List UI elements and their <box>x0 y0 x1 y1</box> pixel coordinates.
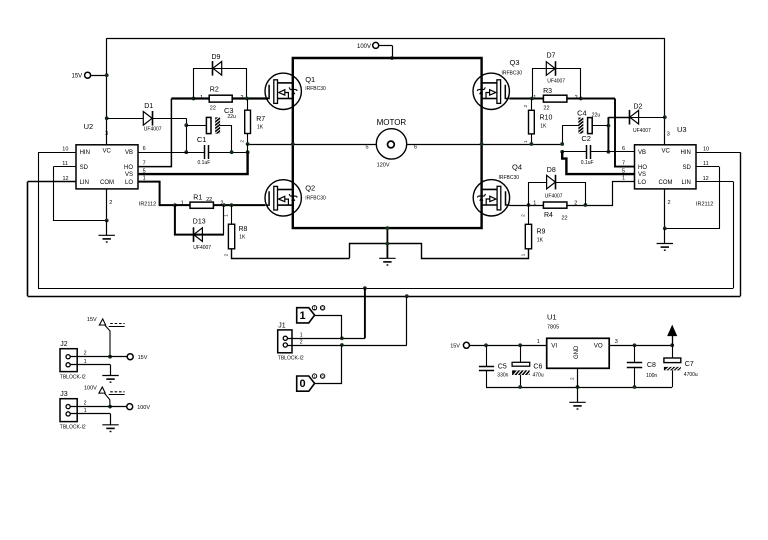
wire H-bridge loop (drain/source bus) <box>293 58 482 228</box>
wire line2 to J1 pin2 <box>406 296 408 345</box>
wire C4 right <box>592 125 608 127</box>
connector J3 TBLOCK-I2 body <box>60 399 77 422</box>
wire arrow stem <box>672 331 674 345</box>
node U3 COM/SD <box>663 227 667 231</box>
svg-text:2: 2 <box>570 377 576 380</box>
node C8 bottom <box>633 385 637 389</box>
svg-text:C7: C7 <box>685 361 694 368</box>
connector J1 TBLOCK-I2 body <box>278 330 292 353</box>
svg-text:C5: C5 <box>498 363 507 370</box>
svg-text:R10: R10 <box>540 115 553 122</box>
svg-text:0.1uF: 0.1uF <box>198 160 211 166</box>
svg-text:UF4007: UF4007 <box>633 128 651 134</box>
svg-text:TBLOCK-I2: TBLOCK-I2 <box>60 424 86 430</box>
svg-text:7805: 7805 <box>547 324 559 330</box>
node R2 pin2/R7 <box>245 97 249 101</box>
svg-text:R7: R7 <box>256 116 265 123</box>
node VS chain mid <box>246 150 250 154</box>
wire VDD top rail <box>107 38 665 40</box>
wire J3 pin1 <box>70 413 110 415</box>
svg-text:IRFBC30: IRFBC30 <box>502 71 523 77</box>
node line1/J1 pin1 <box>363 286 367 290</box>
svg-text:470u: 470u <box>533 372 544 378</box>
flag 100V dashes <box>110 391 124 393</box>
svg-text:R3: R3 <box>543 88 552 95</box>
diode D8 UF4007 <box>547 175 556 189</box>
wire 100V terminal <box>379 45 393 47</box>
node R2 pin1 <box>192 97 196 101</box>
wire J2 pin2 <box>70 356 110 358</box>
probe1 toggle circle a <box>312 306 316 310</box>
svg-text:HO: HO <box>638 165 647 171</box>
svg-text:100V: 100V <box>357 44 371 50</box>
wire U2 VB stub <box>138 152 186 154</box>
node R7/switch line <box>246 142 250 146</box>
node probe1 tap <box>340 336 344 340</box>
svg-text:1: 1 <box>520 253 526 256</box>
wire C3 right to VS <box>220 126 231 152</box>
wire VS right vertical <box>562 126 564 144</box>
node GND rail <box>576 385 580 389</box>
wire U3 VS rail <box>562 152 634 174</box>
node bridge bottom <box>386 226 390 230</box>
regulator U1 7805 body <box>547 338 610 368</box>
wire U2 COM stub <box>106 189 108 221</box>
svg-text:C8: C8 <box>647 362 656 369</box>
wire logic line2 LIN-HIN <box>28 296 741 298</box>
svg-text:LO: LO <box>638 180 646 186</box>
capacitor C2 left plate <box>586 145 588 159</box>
wire R4 pin1 to Q4 gate <box>509 205 543 207</box>
svg-text:D8: D8 <box>547 167 556 174</box>
wire U2 HIN stub <box>38 152 76 154</box>
wire U1 bottom rail <box>486 387 672 389</box>
node C5 top <box>484 343 488 347</box>
wire U2 LO to R1 <box>138 182 175 206</box>
wire C2 to U3 VB <box>591 151 635 153</box>
wire C7 top stem <box>672 345 674 358</box>
resistor R10 1K <box>529 110 535 134</box>
flag 100V underline <box>109 394 125 396</box>
svg-text:11: 11 <box>62 161 68 167</box>
wire to 15V terminal <box>110 356 127 358</box>
wire J2 pin1 to gnd <box>110 365 112 376</box>
diode D2 UF4007 <box>630 110 639 124</box>
wire J1 pin1 <box>287 338 365 340</box>
svg-text:D2: D2 <box>634 104 643 111</box>
wire U2 SD to COM <box>54 167 107 221</box>
node R3 pin2 <box>579 97 583 101</box>
wire R7 top <box>247 99 249 111</box>
svg-text:R4: R4 <box>544 212 553 219</box>
wire U2 VC vertical <box>106 38 108 145</box>
wire VB to C1 <box>186 152 204 154</box>
wire C6 bottom stem <box>520 375 522 387</box>
svg-text:120V: 120V <box>377 162 390 168</box>
power flag 100V <box>99 387 105 393</box>
svg-text:1K: 1K <box>239 234 246 240</box>
node C2 left <box>560 150 564 154</box>
probe0 toggle circle b <box>320 374 324 378</box>
wire C8 top stem <box>634 345 636 362</box>
wire J2 pin1 <box>70 364 110 366</box>
node R10/switch line <box>530 142 534 146</box>
svg-text:U2: U2 <box>84 122 94 131</box>
svg-text:SD: SD <box>682 165 691 171</box>
ground J3 <box>102 425 118 432</box>
resistor R3 22 <box>543 95 567 102</box>
wire U3 HO to gate rail <box>615 99 635 167</box>
wire J1 pin2 <box>287 345 406 347</box>
svg-text:1: 1 <box>523 140 529 143</box>
svg-text:LIN: LIN <box>80 180 89 186</box>
wire D2 cathode <box>608 117 629 119</box>
capacitor C8 bottom plate <box>627 367 642 369</box>
node C6 top <box>518 343 522 347</box>
transistor Q2 IRFBC30 low-side left <box>265 180 301 216</box>
svg-text:5: 5 <box>365 144 368 150</box>
capacitor C8 top plate <box>627 362 642 364</box>
svg-text:IRFBC30: IRFBC30 <box>499 175 520 181</box>
svg-text:C4: C4 <box>577 108 587 117</box>
wire motor to right switch node <box>407 144 562 146</box>
wire U3 SD stub <box>696 166 719 168</box>
svg-text:VC: VC <box>103 149 112 155</box>
svg-text:2: 2 <box>109 200 112 206</box>
svg-text:2: 2 <box>520 214 526 217</box>
svg-text:Q4: Q4 <box>512 162 522 171</box>
svg-text:22: 22 <box>562 215 568 221</box>
svg-text:U1: U1 <box>547 313 557 322</box>
svg-text:U3: U3 <box>677 125 687 134</box>
node R1 pin2/D13 <box>222 203 226 207</box>
svg-text:GND: GND <box>574 345 580 359</box>
svg-text:VS: VS <box>125 172 133 178</box>
svg-text:R8: R8 <box>239 226 248 233</box>
node C7 top <box>670 343 674 347</box>
resistor R2 22 <box>209 95 232 102</box>
svg-text:COM: COM <box>100 180 114 186</box>
svg-text:VB: VB <box>125 150 133 156</box>
svg-text:R9: R9 <box>537 229 546 236</box>
diode D1 UF4007 <box>143 112 152 126</box>
resistor R7 1K <box>245 110 251 133</box>
node VB right <box>607 150 611 154</box>
node D1 anode tap <box>105 116 109 120</box>
wire 15V to VI <box>469 345 547 347</box>
wire probe1 to J1 pin1 <box>315 316 342 339</box>
transistor Q4 IRFBC30 low-side right <box>473 180 509 216</box>
pin J3-2 <box>66 405 70 409</box>
wire C6 top stem <box>520 345 522 362</box>
wire 100V drop <box>392 45 394 58</box>
wire bottom ground jog <box>350 244 529 259</box>
svg-text:UF4007: UF4007 <box>144 127 162 133</box>
wire left switch node to motor <box>248 144 377 146</box>
node D8 cathode tap <box>584 203 588 207</box>
resistor R1 22 <box>190 202 213 208</box>
svg-text:IRFBC30: IRFBC30 <box>305 196 326 202</box>
node C8 top <box>633 343 637 347</box>
pin J3-1 <box>66 412 70 416</box>
svg-text:UF4007: UF4007 <box>545 194 563 200</box>
capacitor C1 left plate <box>204 145 206 159</box>
wire R3 pin1 to Q3 gate <box>509 98 543 100</box>
wire GND drop <box>577 387 579 402</box>
wire U2 COM to ground <box>106 221 108 236</box>
svg-text:1: 1 <box>223 214 229 217</box>
node 15V/VC junction <box>105 73 109 77</box>
svg-text:4700u: 4700u <box>684 372 698 378</box>
wire R2 pin2 to Q1 gate <box>232 97 268 99</box>
logic state probe 0 <box>297 376 315 391</box>
svg-text:LO: LO <box>125 180 133 186</box>
svg-text:15V: 15V <box>72 74 83 80</box>
node D2 anode tap <box>663 115 667 119</box>
power arrow VDD out <box>668 326 677 336</box>
svg-text:D9: D9 <box>212 54 221 61</box>
svg-text:D7: D7 <box>547 53 556 60</box>
svg-text:VI: VI <box>551 343 557 350</box>
connector J2 TBLOCK-I2 body <box>60 349 77 372</box>
wire C4 left <box>562 125 578 127</box>
svg-text:7: 7 <box>143 161 146 167</box>
wire HO gate rail to R3 <box>581 98 615 100</box>
wire C8 bottom stem <box>634 367 636 387</box>
capacitor C4 minus plate <box>578 117 583 137</box>
wire U2 LIN stub <box>28 181 76 183</box>
capacitor C2 right plate <box>590 145 592 159</box>
svg-text:2: 2 <box>223 253 229 256</box>
svg-text:100V: 100V <box>84 385 97 391</box>
svg-text:R2: R2 <box>210 86 219 93</box>
node probe0 tap <box>340 343 344 347</box>
motor inner hub <box>388 141 395 148</box>
wire C5 bottom stem <box>486 370 488 387</box>
svg-text:22: 22 <box>206 197 212 203</box>
wire R1 pin2 to Q2 gate <box>213 204 265 206</box>
wire 15V to VC <box>90 75 106 77</box>
svg-text:15V: 15V <box>87 317 97 323</box>
svg-text:MOTOR: MOTOR <box>377 118 407 127</box>
svg-text:UF4007: UF4007 <box>547 78 565 84</box>
wire U3 COM stub <box>664 189 666 229</box>
svg-text:330n: 330n <box>497 372 508 378</box>
capacitor C7 plus plate <box>664 358 681 363</box>
wire C7 bottom stem <box>672 370 674 387</box>
op-amp driver U2 IR2112 body <box>76 145 138 189</box>
svg-text:3: 3 <box>667 132 670 138</box>
svg-text:100n: 100n <box>646 373 657 379</box>
wire logic line1 HIN-LIN <box>38 288 733 290</box>
svg-text:0: 0 <box>300 378 306 390</box>
wire R10 top <box>531 99 533 111</box>
svg-text:R1: R1 <box>193 195 202 202</box>
diode D13 UF4007 <box>194 228 203 242</box>
wire C1 to VS chain <box>209 152 248 154</box>
wire C2 left wire <box>562 151 586 153</box>
wire VB right vertical <box>607 117 609 152</box>
svg-text:HIN: HIN <box>680 150 690 156</box>
svg-text:2: 2 <box>240 140 246 143</box>
svg-text:5: 5 <box>622 168 625 174</box>
flag 15V underline <box>109 326 125 328</box>
svg-text:IRFBC30: IRFBC30 <box>305 86 326 92</box>
wire flag to J3 node <box>105 393 111 406</box>
ground J2 <box>102 376 118 383</box>
wire bridge bottom to ground <box>386 228 388 258</box>
op-amp driver U3 IR2112 body <box>635 145 697 189</box>
diode D7 UF4007 <box>546 62 555 76</box>
node R3 pin1/R10 <box>530 97 534 101</box>
wire R8 bottom rail <box>232 249 350 259</box>
svg-text:2: 2 <box>668 200 671 206</box>
svg-text:COM: COM <box>659 180 673 186</box>
svg-text:10: 10 <box>62 146 68 152</box>
diode D7 loop wire <box>533 69 581 99</box>
motor M1 body <box>376 129 406 159</box>
probe1 toggle circle b <box>320 306 324 310</box>
wire probe0 to J1 pin2 <box>315 345 342 384</box>
wire J3 pin2 <box>70 406 110 408</box>
wire R3 pin2 seg <box>567 98 581 100</box>
svg-text:22u: 22u <box>228 114 237 120</box>
svg-text:1K: 1K <box>537 237 544 243</box>
diode D9 UF4007 <box>213 62 222 76</box>
wire J3 pin1 to gnd <box>110 414 112 425</box>
svg-text:HO: HO <box>124 165 133 171</box>
wire D1 drop to VB <box>186 118 188 152</box>
capacitor C3 plus plate <box>206 117 211 133</box>
ground U1 <box>569 402 585 409</box>
terminal 15V J2 <box>127 354 133 360</box>
capacitor C5 top plate <box>479 366 494 368</box>
node right bridge tap <box>480 142 484 146</box>
svg-text:IR2112: IR2112 <box>696 201 713 207</box>
svg-text:0.1uF: 0.1uF <box>581 160 594 166</box>
wire HO gate rail to R2 <box>171 97 193 99</box>
svg-text:12: 12 <box>703 176 709 182</box>
wire line1 to J1 pin1 <box>364 288 366 338</box>
node C6 bottom <box>518 385 522 389</box>
capacitor C1 right plate <box>208 145 210 159</box>
svg-text:15V: 15V <box>138 355 148 361</box>
svg-text:J2: J2 <box>60 341 68 348</box>
pin J1-1 <box>283 336 287 340</box>
svg-text:100V: 100V <box>137 405 150 411</box>
node VB left <box>184 150 188 154</box>
node C3 plus tap <box>184 123 188 127</box>
terminal 100V J3 <box>127 404 133 410</box>
wire U1 GND stub <box>577 368 579 387</box>
pin J2-2 <box>66 355 70 359</box>
wire U3 VC vertical <box>664 38 666 145</box>
wire D2 to VC <box>630 117 665 119</box>
node VS right <box>560 142 564 146</box>
svg-text:3: 3 <box>105 131 108 137</box>
svg-text:J1: J1 <box>278 323 286 330</box>
wire U3 HIN drop <box>740 152 742 296</box>
wire R9 top <box>528 205 530 224</box>
svg-text:HIN: HIN <box>80 150 90 156</box>
svg-text:Q3: Q3 <box>510 58 520 67</box>
svg-text:UF4007: UF4007 <box>193 245 211 251</box>
svg-text:3: 3 <box>615 339 618 345</box>
svg-text:22: 22 <box>210 105 216 111</box>
pin J2-1 <box>66 363 70 367</box>
wire flag to J2 node <box>105 325 110 357</box>
node R8 tap <box>230 203 234 207</box>
transistor Q3 IRFBC30 high-side right <box>473 73 509 109</box>
svg-text:1: 1 <box>300 310 306 322</box>
diode D9 loop wire <box>194 69 247 99</box>
capacitor C6 plus plate <box>512 362 530 366</box>
wire C5 top stem <box>486 345 488 366</box>
svg-text:D13: D13 <box>193 218 206 225</box>
node C3/VS <box>230 150 234 154</box>
svg-text:6: 6 <box>414 144 417 150</box>
node left bridge tap <box>291 142 295 146</box>
wire R2 pin1 <box>193 97 209 99</box>
pin J1-2 <box>283 343 287 347</box>
resistor R8 1K <box>228 224 234 249</box>
svg-text:VO: VO <box>594 343 603 350</box>
node ground jog <box>386 242 390 246</box>
node U2 COM/SD <box>105 219 109 223</box>
ground bridge <box>379 258 395 265</box>
svg-text:C2: C2 <box>581 134 591 143</box>
svg-text:TBLOCK-I2: TBLOCK-I2 <box>278 356 304 362</box>
power flag 15V <box>99 319 105 325</box>
wire VS vertical link <box>247 144 249 152</box>
svg-text:2: 2 <box>523 105 529 108</box>
svg-text:LIN: LIN <box>681 180 690 186</box>
capacitor C5 bottom plate <box>479 370 494 372</box>
diode D13 UF4007 loop <box>175 205 224 235</box>
svg-text:IR2112: IR2112 <box>139 201 156 207</box>
diode D8 loop wire left <box>529 183 547 206</box>
probe0 toggle circle a <box>312 374 316 378</box>
wire U2 SD stub <box>54 166 77 168</box>
wire U2 HO to gate rail <box>138 99 171 167</box>
wire C3 left <box>186 125 206 127</box>
svg-text:1K: 1K <box>540 123 547 129</box>
wire R10 bottom <box>531 134 533 144</box>
svg-text:Q1: Q1 <box>305 75 315 84</box>
terminal 15V top-left <box>85 72 91 78</box>
svg-text:2: 2 <box>84 400 87 406</box>
wire D1 to VB node <box>153 118 187 120</box>
svg-text:22u: 22u <box>592 113 601 119</box>
wire U3 COM to ground <box>664 228 666 243</box>
svg-text:C1: C1 <box>197 135 207 144</box>
node C4 plus tap <box>607 124 611 128</box>
node J2 15V <box>108 355 112 359</box>
wire U2 VS rail <box>138 152 248 174</box>
node J3 100V <box>108 405 112 409</box>
logic state probe 1 <box>297 308 315 323</box>
wire R8 top <box>231 205 233 224</box>
wire VC to D1 <box>107 118 144 120</box>
wire U3 HIN stub <box>696 152 740 154</box>
svg-text:1: 1 <box>622 176 625 182</box>
svg-text:VC: VC <box>662 149 671 155</box>
flag 15V dashes <box>110 323 124 325</box>
svg-text:6: 6 <box>622 146 625 152</box>
svg-text:SD: SD <box>80 165 89 171</box>
svg-text:1K: 1K <box>257 124 264 130</box>
svg-text:C6: C6 <box>533 363 542 370</box>
